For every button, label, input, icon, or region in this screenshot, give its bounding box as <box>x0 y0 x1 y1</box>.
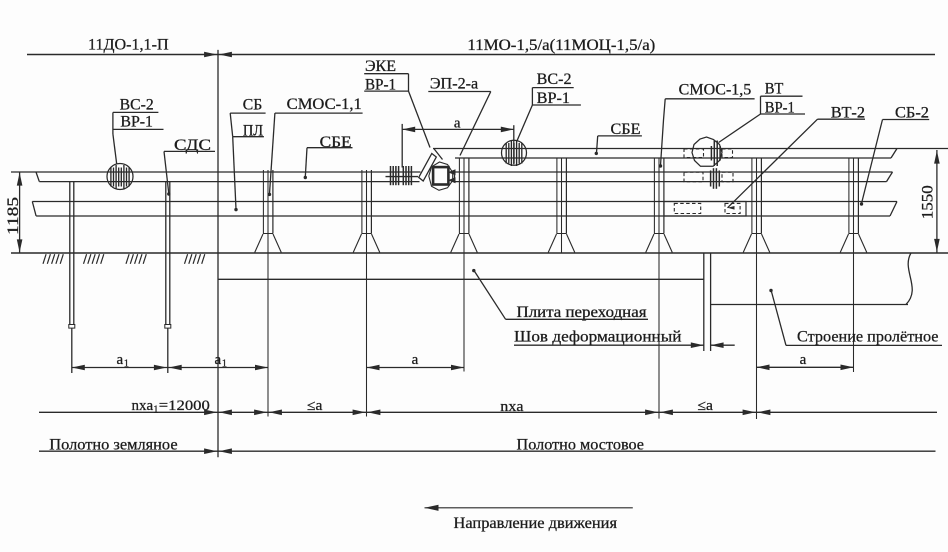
svg-text:1185: 1185 <box>5 197 22 235</box>
svg-text:а: а <box>117 352 124 368</box>
svg-text:ВР-1: ВР-1 <box>120 114 153 131</box>
svg-text:Строение пролётное: Строение пролётное <box>797 329 939 346</box>
svg-text:Полотно мостовое: Полотно мостовое <box>517 437 645 454</box>
svg-text:а: а <box>454 116 461 132</box>
svg-text:а: а <box>800 352 807 368</box>
svg-text:ЭП-2-а: ЭП-2-а <box>430 76 478 93</box>
svg-text:СБ-2: СБ-2 <box>895 104 929 121</box>
svg-text:Направление движения: Направление движения <box>454 515 618 532</box>
svg-text:Плита переходная: Плита переходная <box>517 304 647 321</box>
svg-text:11ДО-1,1-П: 11ДО-1,1-П <box>88 37 169 54</box>
svg-text:СМОС-1,1: СМОС-1,1 <box>287 96 362 113</box>
svg-text:а: а <box>215 352 222 368</box>
svg-text:1: 1 <box>124 359 129 370</box>
svg-text:1550: 1550 <box>920 185 937 219</box>
svg-text:11МО-1,5/а(11МОЦ-1,5/а): 11МО-1,5/а(11МОЦ-1,5/а) <box>467 37 655 54</box>
svg-text:СБ: СБ <box>243 97 263 114</box>
svg-text:Шов деформационный: Шов деформационный <box>514 329 682 346</box>
svg-text:=12000: =12000 <box>159 398 210 414</box>
svg-text:nxa: nxa <box>132 398 154 414</box>
svg-text:ЭКЕ: ЭКЕ <box>365 58 396 75</box>
svg-text:а: а <box>412 352 419 368</box>
svg-text:≤а: ≤а <box>698 398 714 414</box>
svg-text:ВС-2: ВС-2 <box>120 97 154 114</box>
svg-text:Полотно земляное: Полотно земляное <box>49 437 177 454</box>
svg-text:ВС-2: ВС-2 <box>537 71 572 88</box>
svg-text:1: 1 <box>153 404 158 415</box>
svg-text:nxа: nxа <box>500 399 524 415</box>
svg-text:ВТ: ВТ <box>765 81 784 98</box>
svg-text:≤а: ≤а <box>307 398 323 414</box>
svg-text:1: 1 <box>222 359 227 370</box>
svg-text:СМОС-1,5: СМОС-1,5 <box>679 82 752 99</box>
